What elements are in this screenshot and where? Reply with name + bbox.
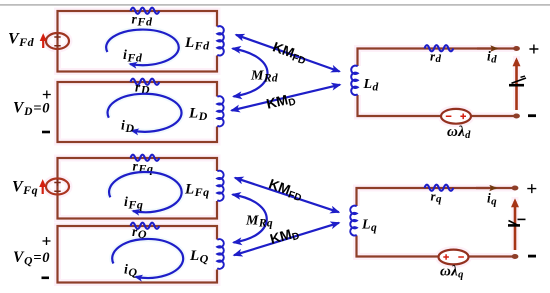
voltage arrow V_d xyxy=(515,60,518,110)
svg-text:KMD: KMD xyxy=(265,90,297,114)
svg-text:iFd: iFd xyxy=(123,48,143,65)
node - (bottom of D loop) xyxy=(42,131,50,134)
resistor r_D xyxy=(131,79,160,85)
node + (top of D loop) xyxy=(43,91,51,99)
svg-text:MRd: MRd xyxy=(250,69,278,85)
svg-text:iq: iq xyxy=(487,191,497,208)
current loop arrow i_Fd xyxy=(106,30,179,66)
inductor coil L_d xyxy=(351,66,358,95)
mutual coupling arrow KM_FD (d-axis) xyxy=(236,35,340,72)
svg-text:KMFD: KMFD xyxy=(270,38,309,67)
speed-voltage source wl_d xyxy=(441,109,471,124)
wire gap for coil L_Q xyxy=(214,240,221,270)
label V_q (rotated) xyxy=(508,224,520,227)
resistor r_Q xyxy=(131,223,160,229)
resistor r_Fd xyxy=(131,8,160,14)
wire: stator d-axis circuit xyxy=(358,49,517,117)
svg-text:VD=0: VD=0 xyxy=(13,100,50,119)
source V_Fq xyxy=(46,179,69,195)
svg-text:LD: LD xyxy=(188,106,208,124)
wire: stator q-axis circuit xyxy=(357,188,516,257)
inductor coil L_q xyxy=(350,206,356,236)
svg-text:LFq: LFq xyxy=(184,182,210,200)
current arrow i_d xyxy=(477,47,497,49)
svg-text:LFd: LFd xyxy=(184,35,210,53)
current loop arrow i_Q xyxy=(112,239,183,278)
mutual coupling arrow KM_D (q-axis) xyxy=(234,223,339,255)
svg-text:Ld: Ld xyxy=(363,77,379,94)
wire: field q-axis loop (V_Fq) xyxy=(58,158,218,219)
wire gap for coil L_Fq xyxy=(214,171,221,201)
svg-text:iQ: iQ xyxy=(124,263,138,280)
node - (bottom of Q loop) xyxy=(42,276,50,279)
node + (top of Q loop) xyxy=(43,237,51,245)
svg-text:VQ=0: VQ=0 xyxy=(13,249,50,268)
svg-text:Lq: Lq xyxy=(361,218,377,235)
svg-text:iD: iD xyxy=(121,119,135,136)
mutual coupling arrow KM_D (d-axis) xyxy=(232,85,341,111)
red polarity arrow at V_Fd xyxy=(42,36,44,49)
svg-text:VFd: VFd xyxy=(8,31,35,50)
wire gap for coil L_D xyxy=(214,97,221,127)
wire: field d-axis loop (V_Fd) xyxy=(58,11,218,72)
mutual coupling curved arrow M_Rq xyxy=(233,195,267,243)
svg-text:iFq: iFq xyxy=(124,195,143,212)
svg-text:ωλd: ωλd xyxy=(447,124,471,141)
svg-text:LQ: LQ xyxy=(189,248,209,266)
wire: damper d-axis loop (V_D=0) xyxy=(58,82,218,142)
svg-text:rFd: rFd xyxy=(132,12,153,29)
red polarity arrow at V_Fq xyxy=(42,182,44,195)
svg-text:KMFD: KMFD xyxy=(266,175,305,204)
current loop arrow i_Fq xyxy=(109,172,182,212)
terminal node (q -) xyxy=(512,254,519,259)
svg-text:MRq: MRq xyxy=(245,214,273,230)
wire: damper q-axis loop (V_Q=0) xyxy=(58,226,218,283)
label V_d (rotated) xyxy=(509,84,524,87)
source V_Fd xyxy=(46,33,69,49)
voltage arrow V_q xyxy=(514,201,517,250)
terminal node (d +) xyxy=(513,46,520,51)
inductor coil L_Fd xyxy=(217,26,224,55)
terminal node (q +) xyxy=(512,186,519,191)
inductor coil L_Fq xyxy=(217,171,223,201)
resistor r_q xyxy=(425,185,454,191)
resistor r_d xyxy=(425,45,454,51)
wire gap for coil L_Fd xyxy=(214,27,221,56)
mutual coupling curved arrow M_Rd xyxy=(233,49,268,97)
inductor coil L_Q xyxy=(217,239,223,269)
current loop arrow i_D xyxy=(108,94,182,132)
wire gap for coil L_q xyxy=(353,206,360,236)
resistor r_Fq xyxy=(131,155,160,161)
terminal node (d -) xyxy=(513,114,520,119)
wire gap for coil L_d xyxy=(354,66,361,95)
current arrow i_q xyxy=(476,187,496,189)
inductor coil L_D xyxy=(217,96,223,126)
svg-text:VFq: VFq xyxy=(12,179,38,198)
speed-voltage source wl_q xyxy=(439,250,469,265)
mutual coupling arrow KM_FD (q-axis) xyxy=(235,178,339,212)
